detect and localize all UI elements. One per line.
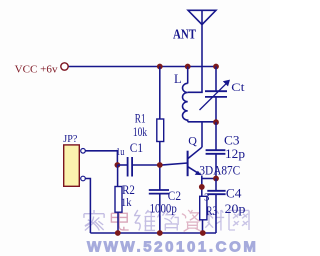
svg-text:1u: 1u bbox=[116, 146, 125, 158]
svg-text:ANT: ANT bbox=[173, 27, 196, 42]
svg-text:C4: C4 bbox=[226, 187, 242, 201]
wire R2 bottom bbox=[117, 212, 119, 233]
transistor Q1 base bar bbox=[187, 151, 189, 177]
capacitor C4 bbox=[207, 191, 225, 194]
junction tank node bbox=[213, 119, 219, 125]
junction R3-ground bbox=[200, 230, 206, 236]
wire C2 top bbox=[159, 165, 161, 190]
svg-text:VCC +6v: VCC +6v bbox=[15, 63, 58, 75]
resistor R1 bbox=[157, 119, 164, 142]
wire Ct top bbox=[215, 67, 217, 92]
svg-text:WWW.520101.COM: WWW.520101.COM bbox=[87, 239, 258, 256]
svg-text:20p: 20p bbox=[225, 202, 246, 216]
svg-text:3: 3 bbox=[204, 191, 210, 203]
wire C3 top bbox=[215, 122, 217, 150]
junction Ct-rail bbox=[213, 64, 219, 70]
resistor R2 bbox=[115, 187, 122, 213]
wire C1 left bbox=[117, 164, 127, 166]
capacitor C3 bbox=[206, 150, 226, 154]
JP pin 1 bbox=[81, 149, 86, 154]
wire antenna to coil tap bbox=[188, 25, 202, 93]
wire base bbox=[160, 163, 188, 165]
svg-text:R2: R2 bbox=[122, 183, 135, 197]
svg-text:C1: C1 bbox=[130, 141, 143, 155]
JP pin 2 bbox=[81, 176, 86, 181]
wire C4 top bbox=[215, 179, 217, 191]
junction L-rail bbox=[185, 64, 191, 70]
wire C2 bottom bbox=[159, 194, 161, 233]
wire emitter to C4 bbox=[202, 178, 216, 180]
junction C1 left bbox=[115, 162, 121, 168]
wire tank bottom bbox=[188, 121, 216, 123]
svg-text:JP?: JP? bbox=[63, 134, 77, 145]
junction emitter stub bbox=[199, 184, 205, 190]
ground rail wire bbox=[90, 232, 216, 234]
svg-text:Q: Q bbox=[188, 134, 197, 148]
wire Ct bottom bbox=[215, 97, 217, 122]
wire VCC rail bbox=[68, 66, 216, 68]
inductor L bbox=[182, 83, 187, 121]
wire C1 right bbox=[132, 164, 160, 166]
junction emitter-C4 bbox=[213, 176, 219, 182]
wire R3 bottom bbox=[202, 220, 204, 233]
junction base node bbox=[157, 162, 163, 168]
svg-text:1000p: 1000p bbox=[150, 201, 177, 215]
transistor emitter bbox=[188, 167, 199, 174]
variable capacitor Ct bbox=[200, 83, 228, 110]
svg-text:12p: 12p bbox=[225, 147, 245, 161]
inductor wire top bbox=[187, 67, 189, 84]
junction R2-ground bbox=[115, 230, 121, 236]
wire JP pin2 to ground bbox=[85, 179, 90, 234]
svg-text:10k: 10k bbox=[133, 124, 148, 139]
wire R1 bottom bbox=[159, 142, 161, 166]
wire C3 bottom bbox=[215, 154, 217, 179]
svg-text:Ct: Ct bbox=[231, 80, 245, 94]
svg-text:R3: R3 bbox=[206, 204, 217, 218]
wire emitter down bbox=[201, 176, 203, 197]
junction R1-rail bbox=[157, 64, 163, 70]
connector JP1 bbox=[64, 145, 80, 186]
transistor collector bbox=[188, 147, 202, 158]
svg-text:L: L bbox=[174, 72, 182, 86]
svg-text:C3: C3 bbox=[224, 133, 240, 147]
resistor R3 bbox=[200, 196, 207, 220]
antenna ANT bbox=[188, 10, 216, 24]
wire C4 bottom bbox=[215, 194, 217, 233]
watermark chinese characters bbox=[84, 210, 249, 231]
capacitor C1 bbox=[128, 157, 133, 177]
wire R1 top bbox=[159, 67, 161, 120]
wire R2 top bbox=[117, 165, 119, 187]
wire JP pin1 to C1 bbox=[85, 151, 117, 165]
svg-text:3DA87C: 3DA87C bbox=[199, 162, 240, 177]
svg-text:1k: 1k bbox=[121, 197, 132, 209]
VCC terminal circle bbox=[61, 63, 68, 70]
wire collector to tank bbox=[201, 122, 203, 147]
capacitor C2 bbox=[149, 190, 169, 194]
junction C2-ground bbox=[157, 230, 163, 236]
